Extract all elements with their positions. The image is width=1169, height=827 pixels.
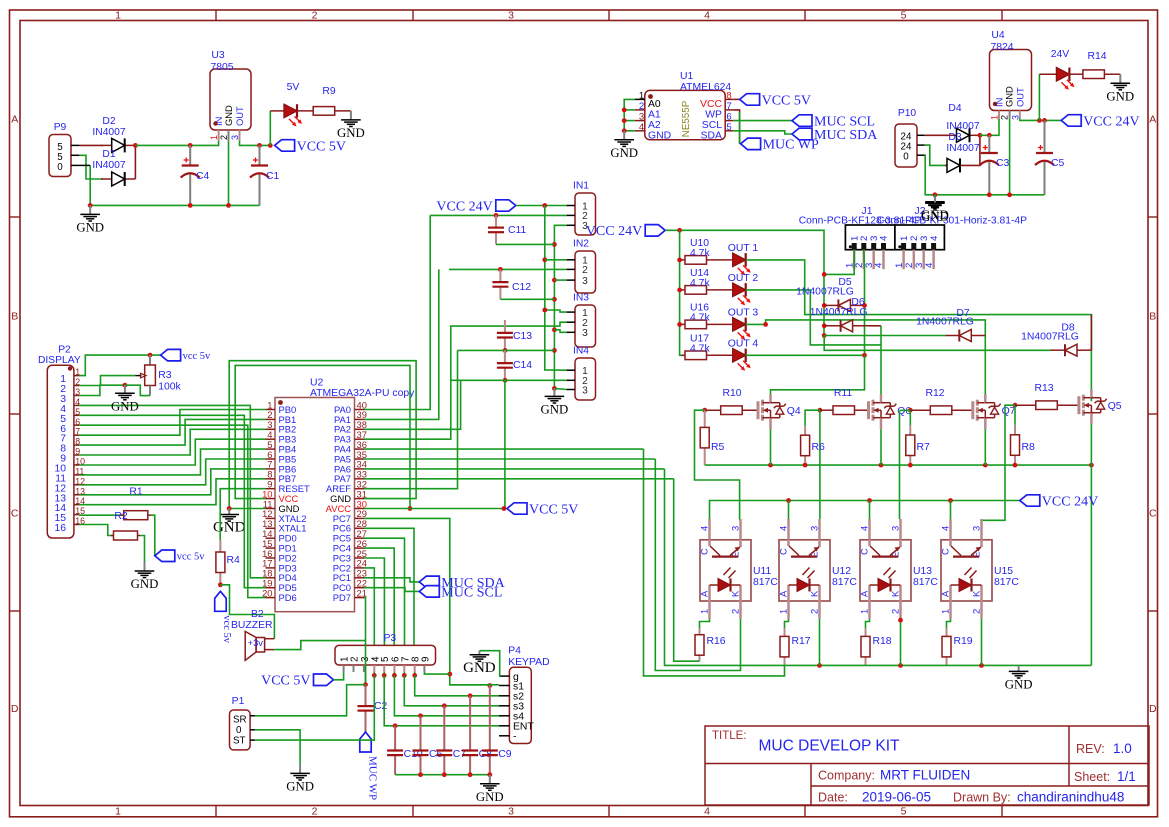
svg-text:vcc 5v: vcc 5v xyxy=(183,351,211,362)
junction OUT4 D5 column xyxy=(862,353,867,358)
svg-text:2: 2 xyxy=(350,657,361,662)
company label xyxy=(818,769,875,783)
wire R17 return xyxy=(644,449,785,676)
wire P3 pin stub link 414.7 xyxy=(414,672,416,675)
connector IN4 xyxy=(567,358,596,400)
wire P2 pin8 to U2 pin2 xyxy=(79,419,266,445)
wire R19 bottom xyxy=(946,664,948,667)
svg-text:PD6: PD6 xyxy=(279,592,297,603)
company value xyxy=(880,768,970,783)
svg-text:MUC WP: MUC WP xyxy=(366,756,378,800)
wire PC5 drop xyxy=(364,538,405,645)
svg-text:2: 2 xyxy=(730,609,741,614)
svg-text:GND: GND xyxy=(610,146,638,160)
diode D2 IN4007 xyxy=(101,138,135,152)
svg-text:4: 4 xyxy=(75,397,80,407)
junction s1 cap xyxy=(487,683,492,688)
svg-text:12: 12 xyxy=(75,476,85,486)
P2 refdes xyxy=(58,345,71,356)
connector IN3 xyxy=(567,305,596,347)
svg-text:2: 2 xyxy=(582,265,588,276)
ground under R9 xyxy=(337,111,365,140)
junction D5 anode rail xyxy=(822,303,827,308)
svg-text:D4: D4 xyxy=(948,103,961,114)
svg-text:1N4007RLG: 1N4007RLG xyxy=(796,287,854,298)
wire caps gnd rail xyxy=(395,774,490,776)
junction C13 C14 xyxy=(503,348,508,353)
svg-text:3: 3 xyxy=(971,526,982,531)
svg-text:3: 3 xyxy=(730,526,741,531)
capacitor C8 xyxy=(462,696,478,775)
U2 refdes xyxy=(310,378,324,389)
U11 value xyxy=(753,577,778,588)
resistor R18 xyxy=(861,629,870,665)
wire OUT2 to Q6 drain xyxy=(746,290,881,345)
svg-text:OUT: OUT xyxy=(1015,87,1026,107)
optocoupler U13 817C xyxy=(859,519,912,619)
svg-text:6: 6 xyxy=(75,417,80,427)
svg-text:20: 20 xyxy=(262,587,272,598)
wire P10 pin2 to D3 xyxy=(925,145,947,165)
ground P10 rail xyxy=(921,195,949,222)
wire D6 col to Q6 drain xyxy=(880,326,882,401)
OUT 4 label xyxy=(728,338,759,349)
wire PC0 to MUC SCL xyxy=(364,588,419,592)
svg-text:5: 5 xyxy=(901,9,907,21)
U14 refdes xyxy=(690,268,709,279)
svg-text:VCC 24V: VCC 24V xyxy=(1083,114,1139,129)
wire OUT1 to Q5 drain xyxy=(746,260,1092,401)
wire OUT4 to Q4 drain xyxy=(771,355,865,401)
svg-text:3: 3 xyxy=(582,385,588,396)
junction D7 rail xyxy=(822,333,827,338)
svg-text:A: A xyxy=(699,590,710,597)
R13 refdes xyxy=(1034,383,1053,394)
svg-text:GND: GND xyxy=(921,209,949,223)
D3 refdes xyxy=(948,132,961,143)
R9 refdes xyxy=(322,86,336,97)
junction ENT cap xyxy=(393,723,398,728)
title text MUC DEVELOP KIT xyxy=(759,738,901,755)
wire OUT3 to Q7 drain xyxy=(746,320,986,401)
svg-text:817C: 817C xyxy=(753,577,778,588)
svg-text:R13: R13 xyxy=(1034,383,1053,394)
svg-text:U12: U12 xyxy=(832,566,851,577)
svg-text:P10: P10 xyxy=(898,108,917,119)
junction OUT3 cathode xyxy=(763,322,768,327)
Q6 refdes xyxy=(897,406,911,417)
svg-text:R18: R18 xyxy=(873,636,892,647)
R4 refdes xyxy=(227,555,241,566)
led 24V indicator xyxy=(1039,68,1074,90)
P3 refdes xyxy=(383,633,396,644)
svg-text:U11: U11 xyxy=(753,566,772,577)
svg-text:-: - xyxy=(513,732,516,743)
wire P9 pin2 to D1 xyxy=(79,155,103,179)
svg-text:2: 2 xyxy=(639,101,644,112)
svg-text:C5: C5 xyxy=(1051,158,1065,169)
mcu U2 ATMEGA32A-PU xyxy=(262,398,367,612)
junction P3 pin5 xyxy=(382,673,387,678)
wire PD7 riser over P3 xyxy=(365,644,367,685)
svg-text:Company:: Company: xyxy=(818,769,875,783)
svg-text:1: 1 xyxy=(699,609,710,614)
buzzer B2 xyxy=(245,631,274,660)
resistor R5 xyxy=(700,410,709,465)
junction gnd chain IN3 pin3 xyxy=(552,327,557,332)
svg-text:2: 2 xyxy=(312,9,318,21)
wire P2 pin9 to U2 pin3 xyxy=(79,429,266,455)
wire P2 pin11 to U2 pin5 xyxy=(79,449,266,475)
svg-text:REV:: REV: xyxy=(1076,742,1105,756)
wire P2 pin12 to U2 pin6 xyxy=(79,459,266,485)
U4 refdes xyxy=(991,30,1005,41)
junction C12 top xyxy=(498,267,503,272)
wire P2 pin4 to U2 PD4 xyxy=(79,405,266,577)
junction D5 cathode col xyxy=(862,303,867,308)
R19 refdes xyxy=(954,636,973,647)
svg-text:OUT: OUT xyxy=(234,106,245,126)
regulator U4 7824 xyxy=(990,50,1032,121)
OUT 2 label xyxy=(728,273,759,284)
svg-text:OUT 1: OUT 1 xyxy=(728,243,759,254)
junction gnd chain IN4 pin3 xyxy=(552,386,557,391)
wire C14 bottom row to IN4 pin2 xyxy=(451,379,567,381)
svg-text:A: A xyxy=(778,590,789,597)
led OUT 4 xyxy=(710,349,751,371)
resistor R14 xyxy=(1067,70,1120,79)
junction caps rail C7 xyxy=(442,772,447,777)
svg-text:1: 1 xyxy=(115,9,121,21)
junction source rail x1015 xyxy=(1013,463,1018,468)
junction LED branch xyxy=(268,143,273,148)
junction diode outputs xyxy=(133,143,138,148)
svg-text:C: C xyxy=(1149,507,1157,519)
wire PC4 drop xyxy=(364,548,394,645)
svg-text:R11: R11 xyxy=(834,388,853,399)
wire P2 pin13 to U2 pin7 xyxy=(79,469,266,495)
wire P2 pin16 to R1 xyxy=(79,525,113,536)
svg-text:OUT 2: OUT 2 xyxy=(728,273,759,284)
wire IN1 row drop to PA0 xyxy=(364,215,430,409)
drawnby label xyxy=(953,791,1011,805)
ground P1 xyxy=(286,764,314,793)
power flag vcc 5v vertical xyxy=(215,591,232,643)
wire opto C pin 950 xyxy=(950,501,952,520)
C4 refdes xyxy=(196,171,210,182)
5V label xyxy=(287,82,300,93)
svg-text:1.0: 1.0 xyxy=(1113,741,1132,756)
junction vcc5v R3 node xyxy=(148,353,153,358)
wire U2 RESET to R4 node xyxy=(220,489,265,585)
svg-text:4: 4 xyxy=(879,235,890,241)
C5 refdes xyxy=(1051,158,1065,169)
capacitor C12 xyxy=(492,269,508,299)
svg-text:SDA: SDA xyxy=(701,130,722,141)
capacitor C4 xyxy=(181,145,200,205)
junction opto rail 950 xyxy=(948,498,953,503)
svg-text:GND: GND xyxy=(286,780,314,794)
svg-text:R3: R3 xyxy=(158,370,172,381)
wire OUT4 to node xyxy=(746,354,865,356)
svg-text:5: 5 xyxy=(75,407,80,417)
power flag VCC 5V at P3 xyxy=(261,674,333,689)
U3 refdes xyxy=(211,50,225,61)
wire IN4 pin3 xyxy=(554,388,566,389)
wire AREF riser xyxy=(364,350,458,488)
svg-text:3: 3 xyxy=(582,328,588,339)
wire P3 to ENT xyxy=(384,675,499,725)
capacitor C2 xyxy=(358,685,374,732)
svg-text:7: 7 xyxy=(75,427,80,437)
svg-text:OUT 4: OUT 4 xyxy=(728,338,759,349)
R18 refdes xyxy=(873,636,892,647)
J1 value xyxy=(799,216,922,227)
wire P9 pin1 to D2 xyxy=(79,144,103,146)
svg-text:MUC DEVELOP KIT: MUC DEVELOP KIT xyxy=(759,738,901,755)
wire K pin down 819 xyxy=(819,619,821,666)
wire Q7 source xyxy=(984,429,986,465)
ground near J2 xyxy=(921,197,949,223)
svg-text:GND: GND xyxy=(648,130,671,141)
wire opto C pin 788 xyxy=(788,501,790,520)
svg-text:5: 5 xyxy=(726,122,731,133)
resistor R17 xyxy=(780,629,789,665)
wire R8 branch xyxy=(1014,405,1016,425)
wire IN2 pin1 xyxy=(545,259,567,261)
connector P2 DISPLAY xyxy=(47,365,85,538)
svg-text:U13: U13 xyxy=(913,566,932,577)
junction IN2 pin1 xyxy=(542,257,547,262)
wire out rail flag xyxy=(665,230,824,335)
junction gnd chain C11 xyxy=(552,242,557,247)
U4 value xyxy=(990,42,1013,53)
svg-text:P4: P4 xyxy=(508,646,521,657)
wire U3 GND down xyxy=(228,141,230,206)
svg-text:VCC 24V: VCC 24V xyxy=(586,224,642,239)
capacitor C9 xyxy=(482,686,498,775)
power flag VCC 24V at optos xyxy=(1020,494,1098,509)
wire R6 branch xyxy=(805,410,820,426)
svg-text:GND: GND xyxy=(541,403,569,417)
svg-text:R14: R14 xyxy=(1087,51,1106,62)
ground at R1 xyxy=(131,562,159,591)
svg-text:4.7k: 4.7k xyxy=(690,343,710,354)
svg-text:2: 2 xyxy=(312,805,318,817)
wire opto vcc rail xyxy=(710,501,1020,520)
wire rail to gnd line xyxy=(1090,465,1092,665)
svg-text:GND: GND xyxy=(223,105,234,126)
wire D8 to Q5 col xyxy=(1090,315,1092,351)
svg-text:1: 1 xyxy=(778,609,789,614)
svg-text:VCC 24V: VCC 24V xyxy=(436,199,492,214)
svg-text:GND: GND xyxy=(463,660,496,676)
power flag VCC 5V xyxy=(275,139,346,154)
svg-text:U2: U2 xyxy=(310,378,324,389)
ground keypad caps xyxy=(476,775,504,804)
capacitor C5 xyxy=(1035,120,1054,194)
svg-text:C12: C12 xyxy=(512,282,531,293)
junction U1 A2 xyxy=(622,118,627,123)
wire R18 bottom xyxy=(865,664,867,667)
svg-text:IN4007: IN4007 xyxy=(92,160,125,171)
D4 value xyxy=(946,121,979,132)
wire C2 node to P1 SR xyxy=(255,685,366,716)
D6 value xyxy=(810,307,868,318)
wire P2 pin3 to gnd xyxy=(79,385,125,395)
junction rail C3 xyxy=(987,192,992,197)
svg-text:2: 2 xyxy=(971,609,982,614)
svg-text:VCC 5V: VCC 5V xyxy=(261,674,310,689)
wire PA6 to opto region xyxy=(364,468,665,470)
junction rail gnd lead xyxy=(933,192,938,197)
svg-text:10: 10 xyxy=(75,457,85,467)
svg-text:A: A xyxy=(940,590,951,597)
svg-text:5: 5 xyxy=(901,805,907,817)
P4 refdes xyxy=(508,646,521,657)
resistor R12 xyxy=(910,406,972,415)
wire R2 to flag xyxy=(151,515,155,556)
svg-text:chandiranindhu48: chandiranindhu48 xyxy=(1017,790,1124,805)
capacitor C1 xyxy=(250,145,269,205)
IN2 refdes xyxy=(573,239,589,250)
U12 value xyxy=(832,577,857,588)
svg-text:GND: GND xyxy=(476,790,504,804)
wire Q7 gate left xyxy=(900,409,911,411)
net flag MUC SCL at U2 xyxy=(419,585,502,600)
junction R4 bottom xyxy=(218,582,223,587)
resistor U10 4.7k xyxy=(682,256,711,265)
svg-text:U3: U3 xyxy=(211,50,225,61)
svg-text:A: A xyxy=(11,113,18,125)
wire IN3 pin3 jog xyxy=(554,330,566,333)
svg-text:1: 1 xyxy=(940,609,951,614)
svg-text:IN4: IN4 xyxy=(573,346,589,357)
C1 refdes xyxy=(266,171,280,182)
svg-text:R6: R6 xyxy=(812,442,826,453)
P10 refdes xyxy=(898,108,917,119)
svg-text:24V: 24V xyxy=(1051,49,1070,60)
junction s4 cap xyxy=(418,713,423,718)
svg-text:1: 1 xyxy=(209,135,219,140)
svg-text:D3: D3 xyxy=(948,132,961,143)
svg-text:1: 1 xyxy=(990,115,1000,120)
svg-text:4: 4 xyxy=(940,526,951,531)
resistor R8 xyxy=(1011,425,1020,465)
C10 refdes xyxy=(404,749,423,760)
connector P4 KEYPAD xyxy=(499,667,534,743)
C7 refdes xyxy=(453,749,467,760)
D2 refdes xyxy=(102,116,115,127)
svg-text:2: 2 xyxy=(1000,115,1010,120)
junction AVCC node xyxy=(502,506,507,511)
wire U1 A2 stub xyxy=(624,120,635,122)
wire U13 out to Q7 gate xyxy=(899,411,901,519)
resistor R1 xyxy=(111,531,140,540)
wire GND arc pin11-pin31 xyxy=(229,361,416,509)
net flag MUC SDA at U2 xyxy=(419,576,505,591)
sheet value xyxy=(1117,769,1136,784)
resistor R2 xyxy=(121,511,151,520)
svg-text:2: 2 xyxy=(809,609,820,614)
wire gnd to R3 bottom xyxy=(125,385,150,395)
U15 refdes xyxy=(994,566,1013,577)
svg-text:9: 9 xyxy=(75,447,80,457)
svg-text:R7: R7 xyxy=(917,442,931,453)
svg-text:3: 3 xyxy=(809,526,820,531)
svg-text:4: 4 xyxy=(859,526,870,531)
svg-text:0: 0 xyxy=(57,162,63,173)
led 5V indicator xyxy=(270,104,302,126)
junction C11 top xyxy=(494,213,499,218)
svg-text:Drawn By:: Drawn By: xyxy=(953,791,1011,805)
IN3 refdes xyxy=(573,293,589,304)
junction opto rail 869 xyxy=(867,498,872,503)
svg-text:GND: GND xyxy=(1106,89,1134,103)
IN4 refdes xyxy=(573,346,589,357)
wire U1 WP down xyxy=(733,110,739,144)
resistor R6 xyxy=(801,426,810,465)
wire rectified to U3 IN xyxy=(135,141,218,146)
J2 refdes xyxy=(915,206,926,217)
wire IN3 pin1 jog xyxy=(545,310,567,312)
diode D5 1N4007RLG xyxy=(824,299,864,311)
svg-text:Q7: Q7 xyxy=(1002,406,1016,417)
ground opto line xyxy=(1005,665,1033,691)
U14 value xyxy=(690,278,710,289)
junction gnd rail U3 xyxy=(226,203,231,208)
power flag VCC 24V at OUT rail xyxy=(586,224,665,239)
net flag MUC WP xyxy=(741,138,819,153)
junction U13 K mid xyxy=(898,618,903,623)
connector J2 xyxy=(894,225,945,269)
junction s3 cap xyxy=(442,703,447,708)
transistor Q5 mosfet xyxy=(1079,389,1107,424)
D7 value xyxy=(916,317,974,328)
wire R1 to gnd xyxy=(140,536,145,563)
B2 value BUZZER xyxy=(231,620,273,631)
resistor U17 4.7k xyxy=(682,351,711,360)
wire R19 jog xyxy=(947,619,951,629)
svg-text:7: 7 xyxy=(400,657,411,662)
svg-text:7805: 7805 xyxy=(210,62,233,73)
power flag vcc 5v at R3 xyxy=(161,349,211,361)
svg-text:8: 8 xyxy=(75,437,80,447)
wire AVCC to flag xyxy=(364,508,504,510)
wire source rail xyxy=(705,464,1092,466)
svg-text:GND: GND xyxy=(1004,86,1015,107)
svg-text:Q5: Q5 xyxy=(1108,401,1122,412)
junction P3 pin4 xyxy=(372,673,377,678)
wire D3 up to node xyxy=(962,135,980,165)
junction source rail x910 xyxy=(908,463,913,468)
U13 refdes xyxy=(913,566,932,577)
svg-text:R16: R16 xyxy=(707,636,726,647)
wire P9 pin3 short xyxy=(79,164,90,166)
wire IN gnd chain xyxy=(554,225,566,388)
svg-text:4.7k: 4.7k xyxy=(690,248,710,259)
svg-text:A: A xyxy=(859,590,870,597)
power flag VCC 5V at AVCC xyxy=(507,502,578,517)
diode D4 IN4007 xyxy=(946,128,980,142)
svg-text:817C: 817C xyxy=(994,577,1019,588)
B2 refdes xyxy=(251,609,264,620)
svg-text:U4: U4 xyxy=(991,30,1005,41)
D2 value xyxy=(92,127,125,138)
wire flag to P3 pin1 xyxy=(334,672,344,680)
Q5 refdes xyxy=(1108,401,1122,412)
svg-text:4: 4 xyxy=(704,805,710,817)
